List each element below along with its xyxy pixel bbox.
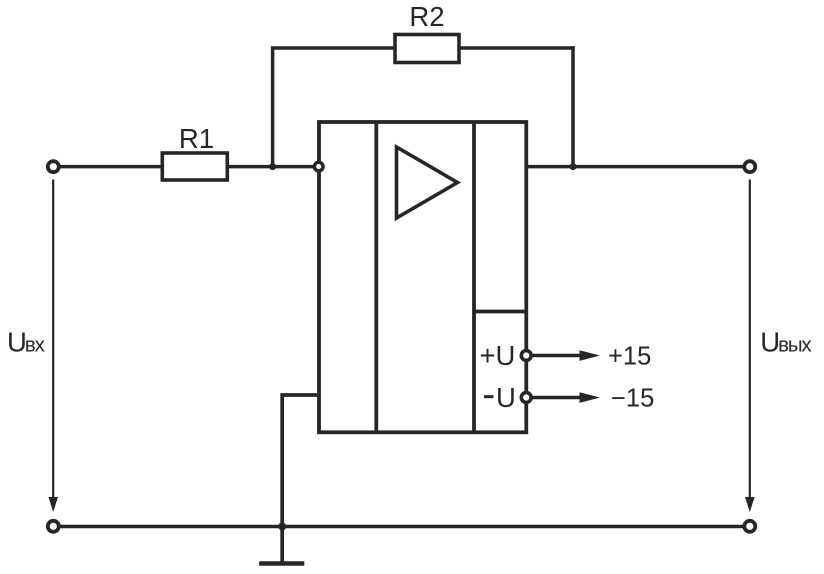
svg-text:R1: R1 (179, 123, 214, 154)
junction feedback/output (570, 163, 577, 170)
arrow Uvx measurement (48, 180, 58, 513)
node input junction circle (314, 162, 323, 171)
label -U (484, 395, 494, 398)
resistor R1 (162, 123, 227, 180)
svg-text:U: U (496, 382, 516, 413)
wire non-inverting input stub and ground vertical (282, 395, 319, 564)
op-amp inner divider line 1 (374, 122, 378, 432)
ground (259, 561, 304, 566)
svg-text:R2: R2 (409, 1, 444, 32)
op-amp power section divider (474, 310, 526, 314)
arrow +U supply (532, 350, 600, 361)
wire R1 to op-amp input node (227, 165, 318, 169)
junction left feedback/input (269, 163, 276, 170)
terminal output bottom (744, 521, 755, 532)
pin -U circle (521, 393, 531, 403)
pin +U circle (521, 351, 531, 361)
svg-text:−15: −15 (611, 385, 654, 413)
wire feedback top right (459, 46, 575, 50)
wire input terminal to R1 (58, 165, 164, 169)
terminal input top (48, 161, 59, 172)
op-amp U1 body (319, 122, 526, 432)
terminal output top (744, 161, 755, 172)
resistor R2 (395, 1, 459, 63)
op-amp inner divider line 2 (472, 122, 476, 432)
svg-text:+15: +15 (608, 343, 651, 371)
svg-text:+U: +U (480, 340, 516, 371)
wire bottom rail (61, 525, 744, 529)
op-amp amplifier triangle (397, 147, 458, 218)
junction ground/bottom rail (278, 523, 286, 531)
wire feedback vertical left (273, 48, 396, 167)
wire op-amp output (526, 165, 744, 169)
terminal input bottom (48, 521, 59, 532)
arrow -U supply (532, 392, 600, 403)
arrow Uvyx measurement (745, 180, 755, 513)
wire feedback vertical right (571, 46, 575, 166)
